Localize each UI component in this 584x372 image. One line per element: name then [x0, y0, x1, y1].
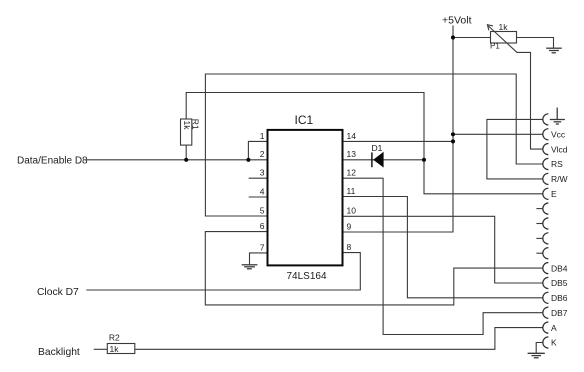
ground at Vss pin	[550, 108, 565, 124]
ground at IC pin 7	[242, 265, 258, 269]
wire Vss pin to R/W pin	[487, 119, 543, 178]
wire R1 top to E pin via diode junction	[186, 93, 543, 194]
svg-text:9: 9	[347, 221, 352, 231]
svg-text:DB5: DB5	[551, 278, 568, 288]
svg-text:1k: 1k	[499, 22, 509, 32]
svg-text:RS: RS	[551, 159, 563, 169]
junction dot pin14 tap	[451, 139, 455, 143]
svg-text:+5Volt: +5Volt	[442, 14, 472, 26]
connector pin arcs	[543, 114, 549, 348]
wire node to IC pin 1	[248, 141, 267, 159]
svg-text:DB4: DB4	[551, 263, 568, 273]
wire IC pin 13 to diode junction	[343, 159, 424, 161]
svg-text:R/W: R/W	[551, 174, 568, 184]
junction dot pin1/pin2	[246, 158, 250, 162]
IC1 box	[268, 130, 343, 266]
wire Backlight to R2	[94, 348, 108, 350]
svg-text:1: 1	[260, 131, 265, 141]
svg-text:11: 11	[347, 186, 356, 196]
wire pin stub nc2	[536, 223, 543, 225]
svg-text:Backlight: Backlight	[38, 347, 80, 358]
ground at K pin	[528, 353, 545, 358]
wire pin stub nc3	[536, 237, 543, 239]
svg-text:A: A	[551, 323, 557, 333]
wire R2 to A pin	[135, 328, 543, 350]
wire Clock D7 to IC pin 8	[86, 253, 360, 290]
svg-text:1k: 1k	[110, 344, 120, 354]
junction dot +5Volt	[451, 35, 455, 39]
svg-text:74LS164: 74LS164	[287, 271, 327, 282]
svg-text:P1: P1	[490, 42, 500, 51]
wire P1 wiper to Vlcd pin	[488, 26, 543, 149]
wire IC pin 6 to DB4 pin	[205, 232, 543, 305]
potentiometer P1 arrow head	[487, 25, 493, 31]
junction dot Vcc tap	[451, 132, 455, 136]
wire P1 right to ground	[517, 38, 554, 49]
svg-text:4: 4	[260, 186, 265, 196]
svg-text:R2: R2	[109, 333, 120, 343]
svg-text:6: 6	[260, 221, 265, 231]
diode D1 triangle	[373, 152, 383, 168]
svg-text:13: 13	[347, 149, 357, 159]
potentiometer P1 body	[491, 32, 517, 44]
svg-text:DB7: DB7	[551, 308, 568, 318]
junction dot R1/data line	[184, 158, 188, 162]
wire IC pin 14 to +5V	[343, 140, 453, 142]
svg-text:K: K	[551, 338, 557, 348]
wire IC pin 12 to DB7 pin	[343, 178, 543, 334]
resistor R2 body	[107, 344, 135, 354]
svg-text:Clock D7: Clock D7	[37, 287, 79, 298]
svg-text:1k: 1k	[182, 121, 192, 131]
svg-text:DB6: DB6	[551, 293, 568, 303]
svg-text:2: 2	[260, 149, 265, 159]
wire pin stub nc1	[536, 208, 543, 210]
svg-text:7: 7	[260, 242, 265, 252]
svg-text:10: 10	[347, 206, 357, 216]
wire IC pin 11 to DB6 pin	[343, 197, 543, 298]
wire IC pin 7 to ground	[250, 253, 268, 265]
wire R1 bottom to data line	[185, 145, 187, 160]
wire K pin to ground	[536, 343, 543, 354]
svg-text:5: 5	[260, 205, 265, 215]
svg-text:Data/Enable D8: Data/Enable D8	[17, 155, 88, 166]
wire +5V rail down to IC pin 9	[343, 26, 453, 233]
svg-text:3: 3	[260, 168, 265, 178]
wire Data/Enable D8 to IC pin 2	[86, 159, 267, 161]
junction dot diode/R1/E	[422, 158, 426, 162]
wire +5V to P1 left	[453, 37, 491, 39]
wire IC pin5 to RS pin	[205, 74, 543, 216]
svg-text:Vlcd: Vlcd	[551, 144, 568, 154]
wire +5V to Vcc pin	[453, 133, 543, 135]
svg-text:IC1: IC1	[295, 113, 314, 127]
svg-text:14: 14	[347, 131, 357, 141]
wire IC pin 3 stub	[249, 177, 268, 179]
wire IC pin 10 to DB5 pin	[343, 216, 543, 283]
wire IC pin 4 stub	[249, 196, 268, 198]
svg-text:Vcc: Vcc	[551, 130, 566, 140]
svg-text:12: 12	[347, 168, 357, 178]
wire pin stub nc4	[536, 252, 543, 254]
resistor R1 body	[181, 119, 192, 145]
svg-text:D1: D1	[372, 143, 383, 153]
ground at P1	[546, 48, 562, 53]
svg-text:E: E	[551, 189, 557, 199]
svg-text:8: 8	[347, 242, 352, 252]
diode D1 cathode bar	[371, 152, 373, 167]
